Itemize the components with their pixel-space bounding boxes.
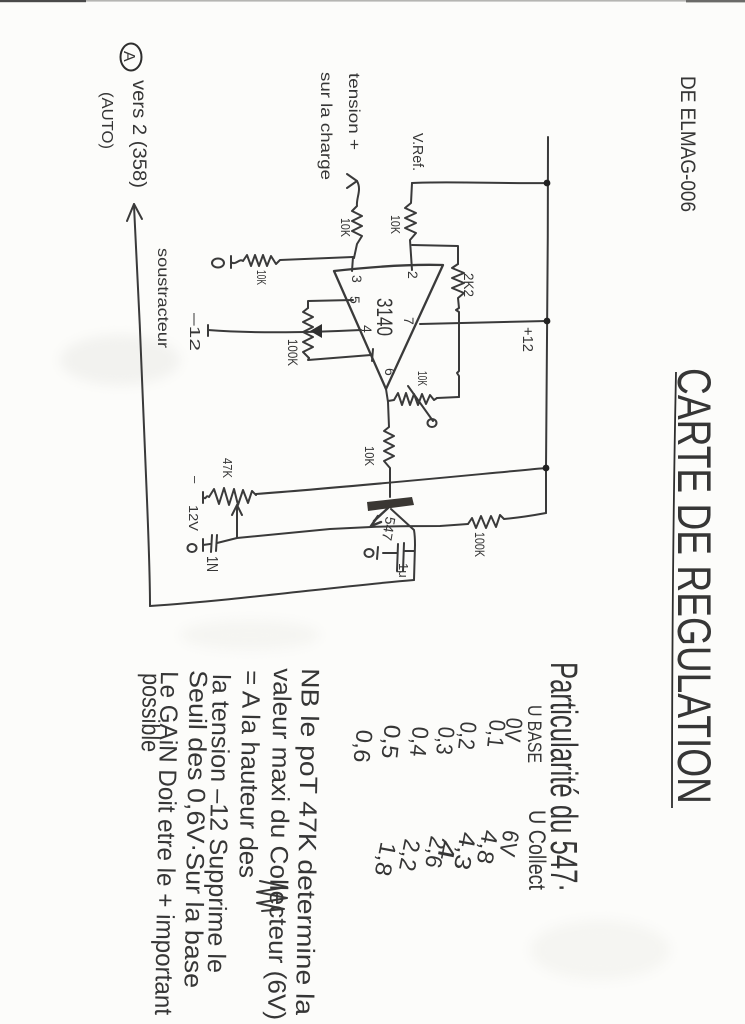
svg-text:0,3: 0,3 — [431, 725, 460, 756]
svg-text:U Collect: U Collect — [523, 810, 550, 890]
svg-text:3: 3 — [349, 275, 365, 283]
svg-text:10K: 10K — [338, 218, 353, 237]
svg-text:DE ELMAG-006: DE ELMAG-006 — [676, 76, 699, 212]
svg-text:(AUTO): (AUTO) — [98, 92, 115, 149]
svg-text:possible: possible — [136, 673, 165, 752]
svg-text:4: 4 — [359, 325, 375, 333]
svg-text:0,6: 0,6 — [349, 728, 378, 764]
svg-text:12V: 12V — [186, 505, 201, 531]
svg-text:–12: –12 — [186, 313, 203, 351]
svg-text:sur la charge: sur la charge — [317, 72, 334, 180]
svg-text:0,4: 0,4 — [405, 725, 434, 758]
svg-text:–: – — [188, 476, 203, 484]
svg-text:10K: 10K — [254, 270, 269, 285]
svg-text:tension +: tension + — [345, 73, 362, 150]
svg-text:6: 6 — [382, 368, 398, 376]
svg-text:1N: 1N — [203, 556, 220, 572]
svg-text:1μ: 1μ — [396, 563, 411, 578]
svg-text:A: A — [120, 51, 137, 62]
svg-text:5: 5 — [347, 296, 363, 304]
svg-text:100K: 100K — [285, 339, 301, 367]
svg-text:+12: +12 — [519, 327, 536, 352]
svg-text:CARTE DE REGULATION: CARTE DE REGULATION — [668, 368, 721, 804]
svg-text:10K: 10K — [415, 371, 430, 386]
svg-text:vers 2 (358): vers 2 (358) — [128, 80, 149, 188]
svg-text:0,1: 0,1 — [482, 718, 511, 749]
svg-text:100K: 100K — [472, 532, 488, 558]
svg-text:7: 7 — [401, 317, 417, 325]
svg-text:10K: 10K — [362, 446, 377, 466]
svg-text:Seuil des 0,6V·Sur la base: Seuil des 0,6V·Sur la base — [178, 670, 212, 988]
svg-text:47K: 47K — [220, 458, 235, 478]
svg-text:= A la hauteur des: = A la hauteur des — [233, 670, 265, 878]
svg-text:2K2: 2K2 — [461, 273, 477, 297]
svg-text:V.Ref.: V.Ref. — [409, 133, 426, 171]
svg-text:10K: 10K — [388, 215, 403, 234]
svg-text:2: 2 — [405, 271, 421, 279]
svg-text:0,5: 0,5 — [376, 723, 405, 760]
svg-text:soustracteur: soustracteur — [154, 248, 171, 349]
